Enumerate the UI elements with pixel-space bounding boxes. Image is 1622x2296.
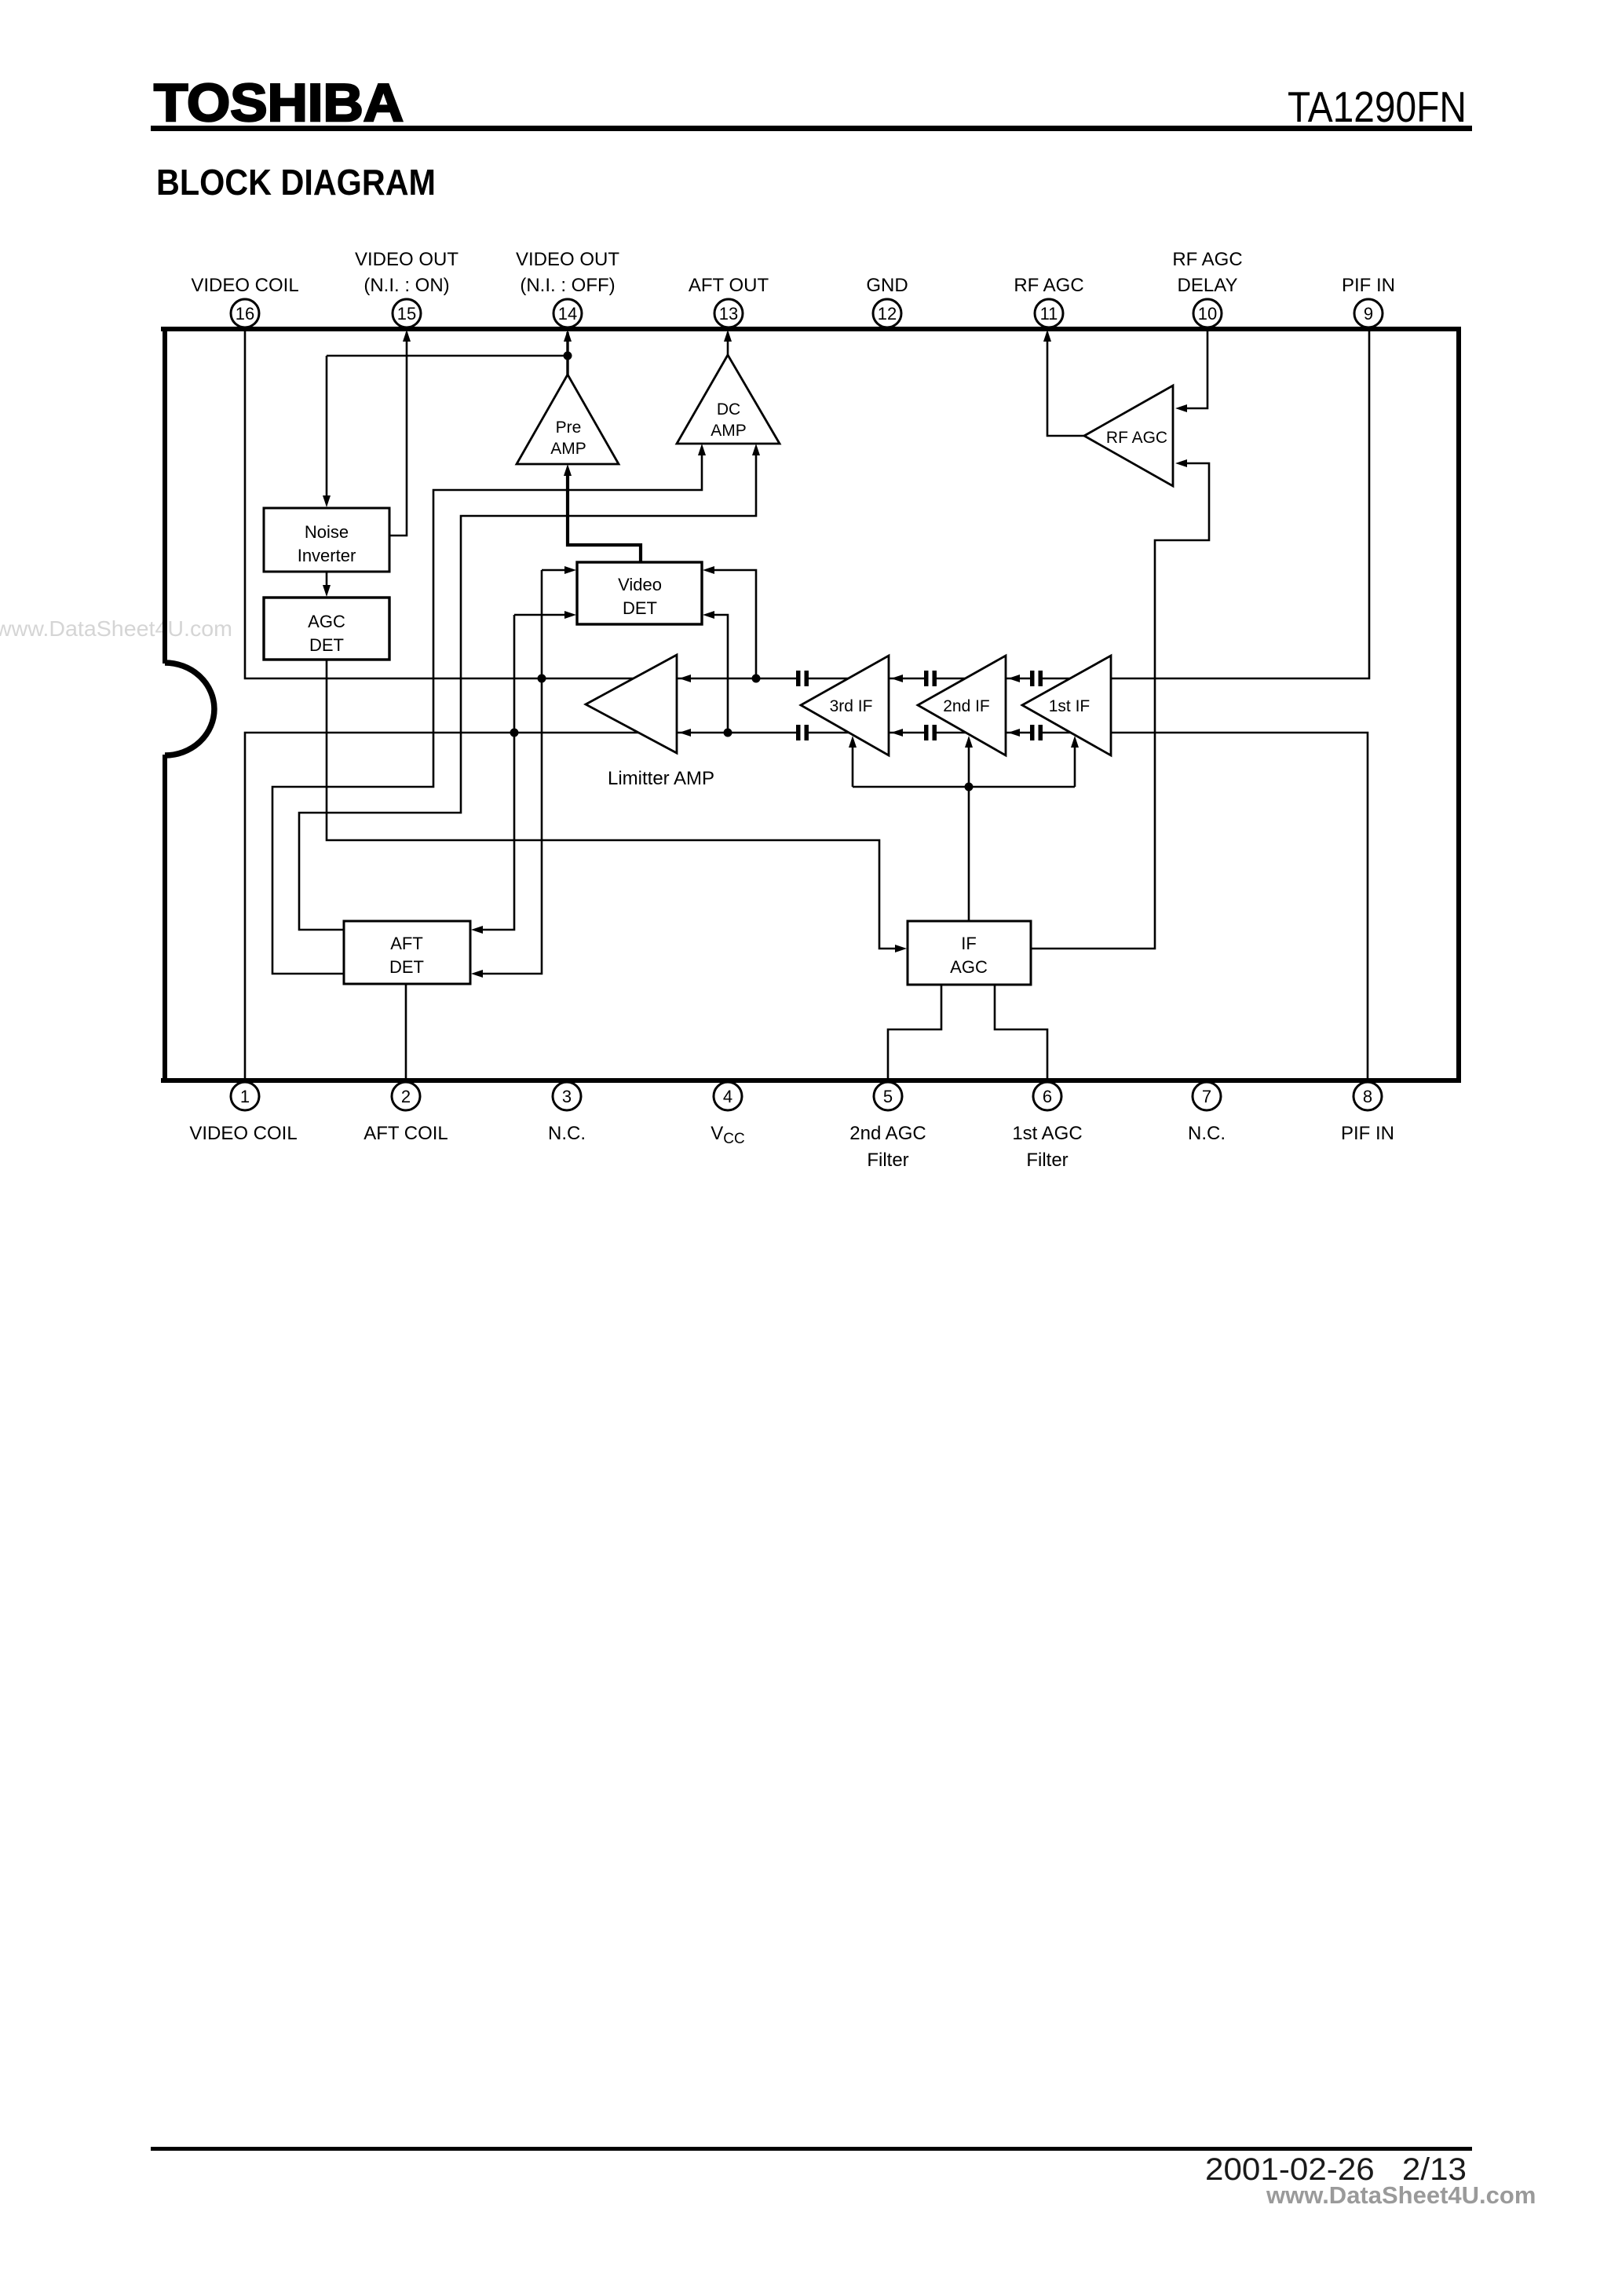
wire video det lower-left stub bbox=[514, 614, 570, 616]
svg-text:1: 1 bbox=[240, 1087, 250, 1106]
arrow into rf agc lower input bbox=[1175, 459, 1187, 467]
wire vertical to video det lower-left and aft det upper input bbox=[480, 615, 514, 930]
capacitor C5 bottom bbox=[924, 725, 937, 740]
pin 16 bbox=[231, 299, 259, 327]
wire aft det upper-left output to dc amp right input bbox=[299, 450, 756, 930]
wire if agc to pin5 bbox=[888, 985, 941, 1080]
pin 7 bbox=[1193, 1082, 1221, 1110]
wire video det upper-left stub bbox=[542, 569, 570, 572]
IC outline left border lower bbox=[163, 755, 167, 1083]
pin 4 bbox=[714, 1082, 742, 1110]
amplifier 3rd IF bbox=[801, 656, 889, 755]
arrow into 3rd IF bottom input bbox=[891, 729, 903, 737]
arrow into rf agc upper input bbox=[1175, 404, 1187, 412]
svg-text:10: 10 bbox=[1198, 304, 1217, 324]
wire noise inverter to agc det bbox=[326, 572, 328, 593]
svg-text:www.DataSheet4U.com: www.DataSheet4U.com bbox=[0, 616, 232, 641]
svg-text:DELAY: DELAY bbox=[1178, 275, 1238, 296]
pin 15 bbox=[393, 299, 421, 327]
capacitor C2 top bbox=[924, 671, 937, 686]
amplifier Pre AMP bbox=[517, 375, 619, 464]
svg-text:Filter: Filter bbox=[867, 1150, 908, 1171]
svg-text:PIF IN: PIF IN bbox=[1341, 1123, 1394, 1144]
pin 1 bbox=[231, 1082, 259, 1110]
arrow into agc det bbox=[323, 585, 331, 597]
svg-text:Filter: Filter bbox=[1026, 1150, 1068, 1171]
arrow into 2nd IF top input bbox=[1008, 675, 1020, 682]
block Video DET bbox=[577, 562, 702, 624]
wire junction to noise inverter horizontal bbox=[327, 355, 568, 357]
svg-text:DET: DET bbox=[623, 598, 657, 618]
arrow agc stub 1st IF bbox=[1071, 736, 1079, 748]
pin 2 bbox=[392, 1082, 420, 1110]
wire pin1 to limitter bottom line to pin8 bbox=[245, 733, 1368, 1080]
svg-text:VIDEO COIL: VIDEO COIL bbox=[189, 1123, 297, 1144]
pin 5 bbox=[874, 1082, 902, 1110]
svg-text:13: 13 bbox=[719, 304, 738, 324]
svg-text:N.C.: N.C. bbox=[548, 1123, 586, 1144]
wire if agc top to feedback loop bbox=[968, 787, 970, 921]
wire pin15 to noise inverter right bbox=[389, 332, 407, 536]
svg-text:AFT: AFT bbox=[390, 934, 423, 953]
arrow into pin15 bbox=[403, 330, 411, 342]
arrow into if agc left bbox=[895, 945, 907, 952]
svg-text:12: 12 bbox=[878, 304, 897, 324]
svg-text:N.C.: N.C. bbox=[1188, 1123, 1226, 1144]
arrow into limitter top input bbox=[679, 675, 691, 682]
amplifier 2nd IF bbox=[918, 656, 1006, 755]
arrow into dc amp base left bbox=[698, 444, 706, 455]
pin 12 bbox=[873, 299, 901, 327]
arrow into aft det upper-right bbox=[471, 926, 483, 934]
junction dot bottom line x927 bbox=[724, 729, 732, 737]
svg-text:AGC: AGC bbox=[950, 957, 988, 977]
agc stub into 3rd IF bbox=[852, 743, 854, 787]
svg-text:6: 6 bbox=[1043, 1087, 1052, 1106]
wire pin10 to rf agc upper input bbox=[1179, 329, 1207, 408]
svg-text:3: 3 bbox=[562, 1087, 572, 1106]
svg-text:4: 4 bbox=[723, 1087, 732, 1106]
svg-text:Video: Video bbox=[618, 575, 662, 594]
amplifier DC AMP bbox=[677, 355, 780, 444]
junction dot top line x963 bbox=[752, 675, 761, 683]
agc stub into 1st IF bbox=[1074, 743, 1076, 787]
svg-text:DET: DET bbox=[309, 635, 344, 655]
capacitor C6 bottom bbox=[1030, 725, 1043, 740]
wire vertical to video det upper-left and aft det lower input bbox=[480, 570, 542, 974]
amplifier 1st IF bbox=[1022, 656, 1111, 755]
amplifier Limitter AMP bbox=[586, 655, 714, 789]
pin 8 bbox=[1353, 1082, 1382, 1110]
pin 11 bbox=[1035, 299, 1063, 327]
arrow agc stub 3rd IF bbox=[849, 736, 857, 748]
wire video det upper-right stub bbox=[711, 570, 756, 678]
svg-text:Noise: Noise bbox=[305, 522, 349, 542]
svg-text:VIDEO OUT: VIDEO OUT bbox=[355, 249, 458, 270]
wire down to noise inverter bbox=[326, 356, 328, 503]
wire pre amp apex to pin14 bbox=[566, 332, 568, 375]
svg-text:5: 5 bbox=[883, 1087, 893, 1106]
svg-text:VIDEO OUT: VIDEO OUT bbox=[516, 249, 619, 270]
svg-text:(N.I. : ON): (N.I. : ON) bbox=[363, 275, 449, 296]
wire dc amp apex to pin13 bbox=[727, 332, 729, 355]
svg-text:TA1290FN: TA1290FN bbox=[1288, 82, 1467, 131]
amplifier RF AGC bbox=[1084, 386, 1173, 486]
svg-text:8: 8 bbox=[1363, 1087, 1372, 1106]
junction dot pin14 line bbox=[564, 352, 572, 360]
svg-text:DC: DC bbox=[717, 400, 740, 419]
capacitor C3 top bbox=[1030, 671, 1043, 686]
IC outline left border upper bbox=[163, 327, 167, 664]
svg-text:7: 7 bbox=[1202, 1087, 1211, 1106]
svg-text:RF AGC: RF AGC bbox=[1106, 429, 1167, 447]
arrow into pin11 bbox=[1043, 330, 1051, 342]
arrow into 3rd IF top input bbox=[891, 675, 903, 682]
junction dot top line x690 bbox=[538, 675, 546, 683]
IC outline right border bbox=[1456, 327, 1461, 1083]
wire video det lower-right stub bbox=[711, 615, 728, 733]
svg-text:PIF IN: PIF IN bbox=[1342, 275, 1395, 296]
svg-text:RF AGC: RF AGC bbox=[1014, 275, 1083, 296]
svg-text:GND: GND bbox=[866, 275, 908, 296]
block AFT DET bbox=[344, 921, 470, 984]
arrow into pin13 bbox=[724, 330, 732, 342]
svg-text:www.DataSheet4U.com: www.DataSheet4U.com bbox=[1266, 2181, 1536, 2209]
svg-text:VIDEO COIL: VIDEO COIL bbox=[191, 275, 298, 296]
footer rule bbox=[151, 2147, 1472, 2151]
wire rf agc apex to pin11 bbox=[1047, 332, 1084, 436]
IC pin-1 notch bbox=[165, 663, 214, 755]
svg-text:AMP: AMP bbox=[711, 422, 747, 440]
arrow into video det upper-left bbox=[564, 566, 576, 574]
arrow into pin14 bbox=[564, 330, 572, 342]
svg-text:14: 14 bbox=[558, 304, 577, 324]
pin 9 bbox=[1354, 299, 1383, 327]
svg-text:BLOCK DIAGRAM: BLOCK DIAGRAM bbox=[156, 162, 436, 203]
arrow into video det upper-right bbox=[703, 566, 714, 574]
svg-text:DET: DET bbox=[389, 957, 424, 977]
svg-text:RF AGC: RF AGC bbox=[1172, 249, 1242, 270]
svg-text:3rd IF: 3rd IF bbox=[830, 697, 873, 715]
svg-text:AGC: AGC bbox=[308, 612, 345, 631]
block AGC DET bbox=[264, 598, 389, 660]
arrow into limitter bottom input bbox=[679, 729, 691, 737]
arrow into aft det lower-right bbox=[471, 970, 483, 978]
wire agc det output to if agc bbox=[327, 660, 901, 949]
svg-text:Limitter AMP: Limitter AMP bbox=[608, 768, 714, 789]
pin 6 bbox=[1033, 1082, 1061, 1110]
svg-text:(N.I. : OFF): (N.I. : OFF) bbox=[520, 275, 615, 296]
svg-text:2nd AGC: 2nd AGC bbox=[849, 1123, 926, 1144]
arrow into 2nd IF bottom input bbox=[1008, 729, 1020, 737]
wire if agc output to rf agc lower input bbox=[1031, 463, 1209, 949]
capacitor C1 top bbox=[796, 671, 809, 686]
pin 3 bbox=[553, 1082, 581, 1110]
header rule bbox=[151, 126, 1472, 131]
arrow into video det lower-left bbox=[564, 611, 576, 619]
svg-text:TOSHIBA: TOSHIBA bbox=[154, 73, 404, 133]
agc stub into 2nd IF bbox=[968, 743, 970, 787]
svg-text:9: 9 bbox=[1364, 304, 1373, 324]
svg-text:Inverter: Inverter bbox=[298, 546, 356, 565]
wire aft det lower-left output to dc amp left input bbox=[272, 450, 702, 974]
arrow into pre amp base bbox=[564, 464, 572, 476]
pin 14 bbox=[553, 299, 582, 327]
arrow into dc amp base right bbox=[752, 444, 760, 455]
wire if agc to pin6 bbox=[995, 985, 1047, 1080]
arrow into video det lower-right bbox=[703, 611, 714, 619]
junction dot bottom line x655 bbox=[510, 729, 519, 737]
block Noise Inverter bbox=[264, 508, 389, 572]
wire pin16 to limitter top line to pin9 bbox=[245, 327, 1369, 678]
svg-text:11: 11 bbox=[1040, 304, 1058, 324]
pin 10 bbox=[1193, 299, 1222, 327]
capacitor C4 bottom bbox=[796, 725, 809, 740]
svg-text:Pre: Pre bbox=[556, 419, 582, 437]
IC outline top border bbox=[161, 327, 1461, 331]
svg-text:AFT COIL: AFT COIL bbox=[363, 1123, 448, 1144]
wire video det output to pre amp (thick) bbox=[568, 471, 641, 562]
svg-text:16: 16 bbox=[236, 304, 254, 324]
junction dot agc loop bbox=[965, 783, 974, 792]
arrow agc stub 2nd IF bbox=[965, 736, 973, 748]
IC outline bottom border bbox=[161, 1078, 1461, 1083]
svg-text:2: 2 bbox=[401, 1087, 411, 1106]
svg-text:1st AGC: 1st AGC bbox=[1012, 1123, 1082, 1144]
pin 13 bbox=[714, 299, 743, 327]
block IF AGC bbox=[908, 921, 1031, 985]
svg-text:2nd IF: 2nd IF bbox=[943, 697, 990, 715]
wire aft det to pin2 aft coil bbox=[405, 984, 407, 1080]
svg-text:15: 15 bbox=[397, 304, 416, 324]
arrow into noise inverter bbox=[323, 495, 331, 507]
svg-text:AFT OUT: AFT OUT bbox=[689, 275, 769, 296]
wire agc feedback loop bbox=[853, 786, 1075, 788]
svg-text:IF: IF bbox=[961, 934, 977, 953]
svg-text:AMP: AMP bbox=[550, 440, 586, 458]
svg-text:1st IF: 1st IF bbox=[1049, 697, 1090, 715]
